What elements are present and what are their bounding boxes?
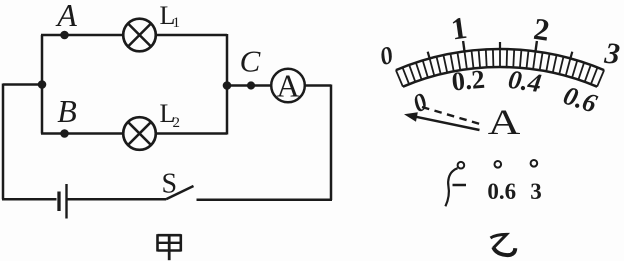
meter inner scale label 0: [409, 88, 432, 118]
label S (switch): [162, 169, 178, 200]
junction dot on left riser: [38, 80, 47, 89]
annotation arrow pointing to needle: [404, 112, 480, 130]
label C (node): [240, 44, 261, 79]
needle position dashed line: [422, 107, 481, 124]
meter major tick marks at 1 and 2: [463, 41, 537, 51]
meter outer scale label 2: [532, 11, 552, 48]
svg-text:1: 1: [173, 15, 181, 31]
meter fine tick marks (0.1 A divisions): [396, 49, 604, 87]
label L2: [160, 99, 181, 131]
wire squiggle into negative terminal: [445, 168, 457, 206]
label A (node): [55, 0, 77, 33]
svg-text:2: 2: [173, 115, 181, 131]
caption 甲 (figure jia): [158, 234, 181, 260]
meter scale inner arc: [403, 67, 597, 87]
wire: left outer vertical: [2, 84, 5, 200]
wire: battery to switch: [67, 198, 167, 201]
lamp L2 symbol: [123, 117, 156, 150]
wire: left stub from riser junction: [3, 83, 42, 86]
svg-text:0: 0: [377, 42, 397, 71]
meter inner scale label 0.6: [560, 80, 601, 119]
node C junction dot: [247, 81, 255, 89]
label L1: [160, 1, 181, 31]
battery: long thin positive plate: [65, 184, 67, 219]
svg-text:C: C: [240, 44, 261, 79]
svg-text:3: 3: [530, 179, 542, 204]
terminal binding post 0.6: [495, 161, 502, 168]
meter inner scale label 0.2: [450, 64, 486, 97]
wire: bottom branch right segment: [156, 132, 228, 135]
svg-text:2: 2: [532, 11, 552, 48]
wire: top branch right segment: [156, 34, 228, 37]
wire: top branch left segment: [41, 34, 124, 37]
switch S open blade: [166, 186, 194, 199]
terminal label 0.6: [487, 179, 516, 204]
wire: bottom branch left segment: [41, 132, 124, 135]
wire: middle segment to ammeter: [227, 84, 272, 87]
wire: switch to right bottom corner: [197, 199, 333, 202]
svg-text:0.6: 0.6: [487, 179, 516, 204]
svg-text:A: A: [55, 0, 77, 33]
wire: right branch vertical join: [226, 34, 229, 135]
wire: bottom-left segment to battery: [2, 198, 57, 201]
negative terminal binding post: [458, 162, 465, 169]
meter inner scale label 0.4: [506, 64, 543, 98]
meter half-unit tick marks: [428, 42, 573, 58]
svg-text:0.2: 0.2: [450, 64, 486, 97]
svg-text:B: B: [57, 93, 77, 129]
meter outer scale label 0: [377, 42, 397, 71]
svg-text:A: A: [276, 68, 299, 104]
terminal label 3: [530, 179, 542, 204]
wire: right outer vertical: [330, 85, 333, 201]
negative terminal minus sign: [453, 184, 467, 187]
ammeter U1 (circle with A): [271, 68, 305, 104]
caption 乙 (figure yi): [491, 234, 516, 255]
svg-text:S: S: [162, 169, 178, 200]
meter outer scale label 3: [602, 37, 621, 71]
label B (node): [57, 93, 77, 129]
svg-text:1: 1: [449, 10, 469, 47]
label A (meter annotation): [488, 103, 521, 142]
junction dot on right riser: [223, 81, 232, 90]
lamp L1 symbol: [123, 19, 156, 52]
svg-text:0.4: 0.4: [506, 64, 543, 98]
wire: left branch vertical riser: [41, 35, 44, 134]
terminal binding post 3: [531, 160, 538, 167]
node A junction dot: [60, 31, 69, 40]
battery: short thick negative plate: [57, 192, 60, 212]
wire: ammeter to right corner: [305, 84, 331, 87]
meter outer scale label 1: [449, 10, 469, 47]
svg-text:A: A: [488, 103, 521, 142]
node B junction dot: [60, 129, 69, 138]
meter scale outer arc: [396, 49, 604, 70]
svg-text:3: 3: [602, 37, 621, 71]
